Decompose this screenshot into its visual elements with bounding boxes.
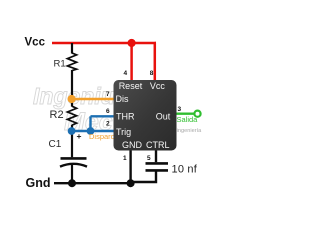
resistor R2 (67, 106, 76, 125)
wire: GND pin 1 down (129, 151, 131, 184)
wire: CTRL pin 5 down (155, 151, 157, 163)
svg-text:Vcc: Vcc (25, 37, 46, 49)
svg-text:Salida: Salida (177, 115, 199, 124)
wire: red drop to pin 8 (155, 43, 156, 81)
wire: blue vertical THR-Trig (89, 116, 91, 131)
svg-text:4: 4 (124, 70, 128, 77)
svg-text:10 nf: 10 nf (172, 164, 198, 176)
wire: red drop to pin 4 (130, 43, 133, 81)
svg-text:GND: GND (122, 140, 143, 150)
svg-text:R1: R1 (54, 59, 66, 70)
svg-text:Ingenius: Ingenius (33, 83, 128, 109)
svg-text:6: 6 (106, 108, 110, 115)
wire: orange to Dis pin 7 (72, 98, 114, 100)
resistor R1 (67, 53, 76, 71)
svg-text:2: 2 (106, 121, 110, 128)
svg-text:R2: R2 (50, 109, 64, 121)
svg-text:5: 5 (147, 155, 151, 162)
wire: vertical between R2 and C1 (71, 125, 73, 158)
svg-text:3: 3 (178, 106, 182, 113)
svg-text:C1: C1 (49, 139, 62, 150)
junction dot ground pin1 (127, 179, 135, 187)
watermark text line 2 (64, 108, 113, 136)
wire: C2 to ground rail (131, 172, 156, 183)
wire: green output (177, 112, 195, 114)
svg-text:THR: THR (116, 111, 135, 121)
capacitor C2 bottom plate (146, 169, 169, 172)
capacitor C1 top plate (61, 157, 87, 160)
svg-text:Out: Out (156, 111, 171, 121)
wire: Vcc red rail (52, 42, 156, 45)
watermark text line 1 (33, 83, 128, 109)
junction dot orange (68, 95, 76, 103)
svg-text:Disparo: Disparo (89, 132, 115, 141)
junction dot blue left (68, 127, 76, 135)
junction dot ground C1 (68, 179, 76, 187)
wire: vertical between R1 and R2 (71, 70, 73, 107)
capacitor C2 top plate (146, 162, 169, 165)
wire: blue Trig branch (72, 130, 114, 132)
svg-text:1: 1 (123, 155, 127, 162)
svg-text:7: 7 (106, 91, 110, 98)
wire: ground rail (54, 182, 131, 184)
op-amp/timer IC U1 body (114, 80, 177, 151)
svg-text:Vcc: Vcc (150, 81, 166, 91)
svg-text:Gnd: Gnd (26, 176, 51, 190)
output terminal circle (194, 111, 200, 117)
wire: blue THR branch (91, 115, 114, 117)
wire: main vertical upper (71, 43, 73, 54)
svg-text:Trig: Trig (116, 127, 131, 137)
svg-text:Dis: Dis (116, 94, 129, 104)
wire: C1 to ground rail (71, 165, 73, 184)
svg-text:CTRL: CTRL (146, 140, 170, 150)
svg-text:a ingeniería: a ingeniería (172, 128, 202, 134)
svg-text:+: + (77, 131, 82, 141)
svg-text:8: 8 (150, 70, 154, 77)
capacitor C1 bottom curved plate (60, 164, 87, 167)
junction dot blue right (87, 127, 95, 135)
svg-text:Reset: Reset (119, 81, 143, 91)
junction dot red (128, 39, 136, 47)
